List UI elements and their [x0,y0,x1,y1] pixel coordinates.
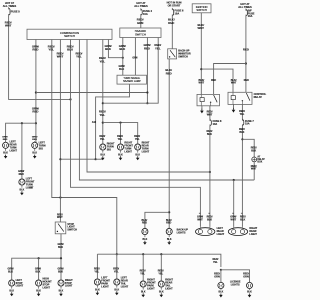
svg-text:LIGHTS: LIGHTS [177,231,186,234]
svg-text:RELAY: RELAY [257,158,265,161]
label RED/YEL under hazard pin4 [154,43,161,50]
junction back-up light split at (169.2,212.3) [168,211,170,213]
tiny connector label on ground wire [92,121,97,124]
label HIGH MOUNT STOP LIGHT [43,278,53,290]
svg-text:BLK: BLK [95,289,100,291]
junction stop feed joins RED/WHT wire at (60.4,197.5) [59,196,61,198]
fuse F8 below relay U1 [210,119,222,126]
svg-text:BOX: BOX [257,162,262,164]
label GRN/RED above left turn split [32,106,39,113]
label RED/WHT below connector [251,165,257,171]
lamp left turn signal indicator [32,141,38,150]
label RED/YEL above right rear tail light [158,270,164,276]
label AT RELAY BOX right of connector [257,155,265,163]
svg-text:LIGHT: LIGHT [249,233,257,236]
lamp license light 2 [246,281,252,290]
label GRN/BLK under hazard pin1 [119,44,126,51]
label RIGHT TURN SIG [107,143,115,152]
svg-text:GRN: GRN [137,21,143,25]
svg-text:ALL TIMES: ALL TIMES [134,4,148,8]
svg-text:RED: RED [32,48,38,52]
svg-text:BLK: BLK [119,68,124,71]
junction at (120.5,122.6) [119,122,121,124]
label GRN/RED under comb switch pin1 [32,44,39,51]
label LEFT REAR TURN LIGHT [10,141,18,153]
label RIGHT STOP LIGHT [65,279,73,288]
svg-text:15A: 15A [245,123,250,126]
label LEFT FRONT TURN LIGHT [26,178,35,190]
svg-text:YEL: YEL [114,270,119,273]
wire ground line right arm to right turn sig ground [96,158,103,160]
wire from connector down to tail light line [253,162,255,180]
svg-text:LIGHT: LIGHT [26,186,34,189]
label RED/ORN above license light 2 [243,273,249,279]
fuse F4 (feed 2) [141,8,153,16]
fuse fusible link (feed 4) [246,9,255,19]
lamp license light 1 [218,281,224,290]
lamp back-up light 1 [142,227,148,236]
tiny label on hazard pin2 wire [132,57,137,59]
svg-text:GRN: GRN [132,57,137,59]
lamp left front turn light [19,178,25,187]
svg-text:WHT: WHT [198,26,205,30]
wire GRN/BLK stop switch output down [60,234,62,280]
svg-text:10A: 10A [213,123,218,126]
svg-text:RELAY: RELAY [254,95,263,99]
back-up inhibitor switch box [168,49,177,59]
svg-text:YEL: YEL [118,138,123,141]
ground left front park light [95,286,100,295]
wire BLK/WHT ignition output down to relay1 [200,13,202,95]
label RIGHT REAR TURN LIGHT [142,142,150,154]
svg-text:WHT: WHT [57,216,63,219]
ground right turn signal indicator [100,151,105,160]
junction RED feed branch at (245.9,63.5) [245,62,247,64]
wire RED/WHT comb pin3 down to stop light switch [59,40,61,223]
label RED/YEL above right front turn lamp [117,135,123,141]
label RIGHT FRONT PARK LIGHT [147,279,156,291]
junction BLK/WHT branch at (201.3,69.1) [200,68,202,70]
label BLK/RED above back-up light 1 [142,219,148,225]
junction node at (35.9,92.5) [35,91,37,93]
relay U1 (turn signal relay) box [197,94,220,105]
label RED/GRN on feed2 [137,18,144,25]
svg-text:BLK: BLK [159,291,164,293]
svg-text:LIGHT: LIGHT [217,233,225,236]
svg-text:YEL: YEL [158,272,163,275]
label RIGHT FRONT TURN LIGHT [124,142,133,154]
label RIGHT REAR TAIL LIGHT [165,279,173,291]
wire license light left drop [220,270,222,283]
wire left-turn branch to left rear turn light [6,123,36,142]
ground right front park light [141,288,146,297]
wire RED branch left and down to control relay 1 [214,64,246,95]
stop light switch box [55,222,66,234]
wire license light branch [221,270,250,283]
junction H3 at (102.8,103.2) [102,102,104,104]
svg-text:SIG: SIG [107,148,111,151]
label LEFT TURN SIG [39,141,46,150]
svg-text:LIGHT: LIGHT [147,287,155,290]
fuse F5 (feed 1) [9,7,21,15]
wire RED/YEL hazard pin4 down then left along H3 [103,38,158,104]
wire GRN/RED left turn output down [35,40,37,143]
svg-text:SIG: SIG [39,147,43,150]
svg-text:YEL: YEL [76,55,82,59]
lamp right front park light [140,280,146,289]
label GRN/RED under hazard pin3 [143,43,150,50]
wire branch left-down to back-up light 1 [145,212,169,228]
label BLK/RED on feed3 [168,17,175,24]
svg-text:WHT: WHT [197,218,203,221]
wire branch down to right tail element [233,180,235,227]
svg-text:BLK: BLK [9,290,14,292]
label LEFT FRONT PARK LIGHT [101,277,110,289]
svg-text:BLK: BLK [119,47,126,51]
junction right tail element branch at (233.7,180) [233,179,235,181]
svg-text:YEL: YEL [155,46,161,50]
feed 1 header HOT AT ALL TIMES [3,1,17,8]
feed 2 header HOT AT ALL TIMES [134,1,148,8]
svg-text:YEL: YEL [240,113,245,116]
tiny connector mark on pin2 wire [29,187,33,189]
ground right stop light [59,287,64,296]
combination switch box [27,29,112,39]
wire RED/WHT relay U1 output down [209,106,211,120]
ground license light 1 [219,288,224,297]
svg-text:BLK: BLK [32,153,37,155]
inhibitor switch contact [169,50,175,57]
ground below relay U1 [200,108,204,113]
label GRN/RED above left rear turn lamp [2,137,8,142]
wire RED/GRN feed2 down into hazard switch [140,15,142,28]
svg-text:OR START: OR START [168,4,181,8]
wire branch down to left rear tail light [116,254,118,279]
svg-text:YEL: YEL [140,272,145,275]
svg-text:BLK: BLK [251,149,256,152]
svg-text:RED: RED [144,46,150,50]
feed 3 header HOT IN RUN OR START [167,1,182,8]
ground high mount stop light [36,287,41,296]
ground back-up light 2 [167,236,172,245]
svg-text:WHT: WHT [251,168,257,171]
svg-text:RED: RED [32,110,38,114]
svg-text:RED: RED [243,48,249,52]
svg-text:BLK: BLK [36,290,41,292]
label RED/YEL under comb switch pin7 [99,56,106,63]
lamp back-up light 2 [166,227,172,236]
svg-text:RED: RED [142,222,147,225]
ground left front turn light [20,186,25,195]
svg-text:BLK: BLK [59,290,64,292]
svg-text:YEL: YEL [100,59,106,63]
svg-text:BLK: BLK [105,47,112,51]
lamp high mount stop light [36,279,42,288]
wire branch down to right rear tail light [160,254,162,281]
junction at (38.6,258.2) [38,257,40,259]
junction H3 meets hazard pin3 at (147.4,103.2) [146,102,148,104]
label RED/BLK on connector branch [251,147,257,153]
svg-text:BLK: BLK [207,133,212,136]
svg-text:SWITCH: SWITCH [196,8,207,12]
label GRN/WHT above left rear light tail element [197,216,203,222]
svg-text:LIGHTS: LIGHTS [231,283,240,286]
label RED/YEL above right front park light [140,270,146,276]
ground back-up light 1 [143,236,148,245]
relay U2 coil [231,92,235,104]
wire branch down to high mount stop light [38,258,40,280]
junction at (61.0,258.2) [60,257,62,259]
svg-text:BLK: BLK [35,270,40,273]
label CONTROL RELAY [254,92,267,99]
svg-text:YEL: YEL [135,138,140,141]
svg-text:RED: RED [3,139,8,141]
svg-text:YEL: YEL [213,261,218,264]
ignition switch box [192,4,211,13]
ground left rear turn light [3,149,8,158]
label RIGHT REAR LIGHT [249,227,257,236]
lamp right turn signal indicator [100,143,106,152]
label RED/YEL above license junction [212,258,218,264]
label RED/YEL under comb switch pin2 [48,44,55,51]
svg-text:LIGHT: LIGHT [10,149,18,152]
junction at (122.8,57.7) [122,57,124,59]
wire RED feed4 down to control relay 2 [245,16,247,93]
svg-text:SWITCH: SWITCH [67,229,77,232]
wire relay U1 ground stub [201,106,203,109]
relay U1 contact [210,95,217,106]
label RED/BLK above left rear light stop element [207,216,213,222]
label GRN/BLK under comb switch pin8 [104,44,111,51]
svg-text:BLK: BLK [247,292,252,294]
junction relay U2 output branch at (242.4,139.3) [241,138,243,140]
label GRN/WHT above right rear light tail element [230,216,236,222]
wire H1 from left-turn wire to hazard wire [36,92,147,94]
connector hooks left rear light [199,212,210,214]
lamp right stop light [58,279,64,288]
svg-text:BLK: BLK [118,154,123,156]
label RED/BLK above right rear light stop element [240,216,246,222]
svg-text:LIGHT: LIGHT [142,150,150,153]
label RED above relay1 [211,79,216,82]
label RED above relay2 [244,79,249,82]
svg-text:RED: RED [168,21,174,25]
svg-text:BLK: BLK [167,239,172,241]
svg-text:RED: RED [19,173,24,176]
svg-text:HAZARD LAMP: HAZARD LAMP [123,80,141,83]
svg-text:BLK: BLK [58,270,63,273]
svg-text:RED: RED [211,79,216,82]
stop light switch contact [57,224,64,232]
wire branch right-down through connector to tail light line [242,139,254,157]
junction at (143.2,254.2) [142,253,144,255]
svg-text:BLK: BLK [20,189,25,191]
svg-text:WHT: WHT [5,24,12,28]
svg-text:BLK: BLK [219,292,224,294]
wire RED/BLK from fuse F8 down to left rear stop element [209,126,211,227]
junction at (161.3,254.2) [160,253,162,255]
svg-text:BLK: BLK [239,131,244,134]
label BLK/RED under inhibitor switch [165,68,172,75]
wire GRN/RED hazard pin3 down to H3 node [146,38,148,104]
svg-text:RED: RED [244,79,249,82]
junction with relay1 output wire at (209.9,172) [209,171,211,173]
label LEFT REAR LIGHT [217,227,225,236]
svg-text:BLK: BLK [100,154,105,156]
svg-text:ORN: ORN [214,275,220,278]
lamp right front turn light [117,143,123,152]
ground right rear tail light [159,288,164,297]
wire flasher box ground pin down-left-down-left [60,84,129,159]
label RED/YEL above right turn sig lamp [99,135,105,141]
wire comb pin6 down then right to relay1 output node [87,40,210,173]
label RED/YEL above left rear tail light [113,268,119,274]
svg-text:YEL: YEL [48,48,54,52]
svg-text:15A: 15A [175,12,180,16]
wire RED/WHT feed1 down and right to node on wire RED/BLU [9,15,71,99]
label BLK/WHT below ignition switch [197,23,204,30]
ground left stop light [9,287,14,296]
label RED/YEL under comb switch pin5 [76,51,83,58]
relay U2 contact [242,93,250,104]
wire RED/BLU comb pin4 down then right to left tail element [71,40,201,227]
junction ground line at (95.6,159.2) [95,158,97,160]
svg-text:YEL: YEL [100,138,105,141]
label GRN/BLK above flasher box [119,65,125,71]
wire RED/YEL relay U2 output down [241,104,243,119]
junction flasher ground line joins at (60.4,159.2) [59,158,61,160]
svg-text:BLK: BLK [135,154,140,156]
lamp left rear tail light [114,278,120,287]
lamp right rear turn light [135,143,141,152]
label BLK/RED above back-up light 2 [166,219,172,225]
ground left rear tail light [114,286,119,295]
junction H1 meets hazard pin3 at (147.4,92.5) [146,91,148,93]
wire BLK/RED inhibitor output down to back-up lights [168,59,170,229]
label GRN/BLK above right stop light [57,267,63,273]
label GRN/BLK above high mount stop light [35,267,41,273]
svg-text:WHT: WHT [199,82,205,85]
label GRN/RED above left front turn light [18,170,24,176]
svg-text:SWITCH: SWITCH [135,32,146,36]
junction feed1 to comb-switch wire at (70.5,99.4) [69,98,71,100]
svg-text:LIGHT: LIGHT [101,285,109,288]
junction license lights at (220.9,269.8) [220,269,222,271]
wire branch down to right front park light [142,254,144,281]
label LEFT STOP LIGHT [16,279,24,288]
connector hooks right rear light [232,212,242,214]
svg-text:WHT: WHT [231,218,237,221]
label RED/BLK below fuse F7 [239,128,245,134]
wire RED/YEL comb pin7 down to right turn lights [102,40,104,145]
svg-text:SWITCH: SWITCH [178,55,188,58]
label BACK-UP LIGHTS [177,228,189,234]
junction tail feed at (116.8,254.2) [116,253,118,255]
svg-text:LIGHT: LIGHT [121,285,129,288]
wire GRN/BLK hazard pin1 down into flasher lamp box [122,38,124,76]
wire relay U2 ground stub [233,104,235,107]
ground below relay U2 [232,108,236,113]
svg-text:BLK: BLK [114,289,119,291]
label STOP LIGHT SWITCH [67,223,77,232]
label RED/WHT on feed1 [5,20,12,27]
label BLK/WHT above relay1 [198,79,204,85]
relay U2 (control relay) box [228,92,252,104]
svg-text:LIGHT: LIGHT [65,285,73,288]
label RED/BLK below fuse F8 [206,130,212,136]
svg-text:WHT: WHT [231,82,237,85]
label RED/YEL on right turn feed [99,110,106,117]
label RED/WHT under comb switch pin3 [57,51,64,58]
lamp left stop light [9,279,15,288]
label RED/ORN above license light 1 [214,273,220,279]
wire H4 right turn distribution [103,123,138,145]
svg-text:BLK: BLK [3,153,8,155]
svg-text:WHT: WHT [57,55,64,59]
svg-text:LIGHT: LIGHT [124,150,132,153]
svg-text:SWITCH: SWITCH [64,34,75,38]
svg-text:LIGHT: LIGHT [165,287,173,290]
junction at (21.9,123.2) [21,122,23,124]
wire RED/YEL comb pin2 down to stop feed line [52,40,117,255]
svg-text:15A: 15A [143,12,148,16]
turn signal hazard lamp box [117,75,147,84]
wire branch down to left front turn light [21,123,23,179]
svg-text:BLU: BLU [67,48,73,52]
label LEFT REAR TAIL LIGHT [121,277,129,289]
svg-text:A16: A16 [92,121,97,124]
label RED/YEL above left front park light [94,268,100,274]
label RED on feed4 [243,48,249,52]
lamp right rear tail light [158,280,164,289]
svg-text:RED: RED [166,71,172,75]
label RED/YEL below relay U2 [239,110,245,116]
lamp left rear turn light [3,141,9,150]
svg-text:ALL TIMES: ALL TIMES [3,4,17,8]
label BLK/WHT above relay2 [231,79,237,85]
lamp left front park light [94,278,100,287]
svg-text:BLK: BLK [8,270,13,273]
svg-text:YEL: YEL [100,113,106,117]
wire tail light feed line across bottom [96,254,98,279]
svg-text:BLK: BLK [58,246,63,249]
wire stop light distribution line [12,258,61,280]
wire RED/YEL comb pin5 down then right joining relay1 branch [79,40,254,181]
svg-text:RED: RED [32,139,37,141]
connector C1 circle [252,157,257,162]
relay U1 coil [200,94,204,105]
wire BLK/WHT branch right-down to relay2 [201,69,233,92]
fuse F7 below relay U2 [242,119,254,126]
feed 4 header HOT AT ALL TIMES [238,2,252,9]
svg-text:BLK: BLK [207,218,212,221]
wire hazard pin2 down into flasher lamp box [134,38,136,76]
label RED/WHT below relay U1 [207,110,213,116]
ground right front turn light [118,151,123,160]
label BACK-UP INHIBITOR SWITCH [178,50,191,59]
label GRN/BLK below stop light switch [57,243,63,249]
lamp left rear combination light [196,227,215,236]
svg-text:10A: 10A [248,15,253,18]
ground license light 2 [247,288,252,297]
svg-text:BLK: BLK [143,239,148,241]
label GRN/RED above left turn sig lamp [32,137,38,142]
svg-text:RED: RED [166,222,171,225]
svg-text:ORN: ORN [243,275,249,278]
fuse F6 (feed 3) [172,8,184,16]
wire GRN/BLK comb pin8 right to hazard pin wire [108,40,122,58]
svg-text:FUSE 5: FUSE 5 [11,9,21,13]
